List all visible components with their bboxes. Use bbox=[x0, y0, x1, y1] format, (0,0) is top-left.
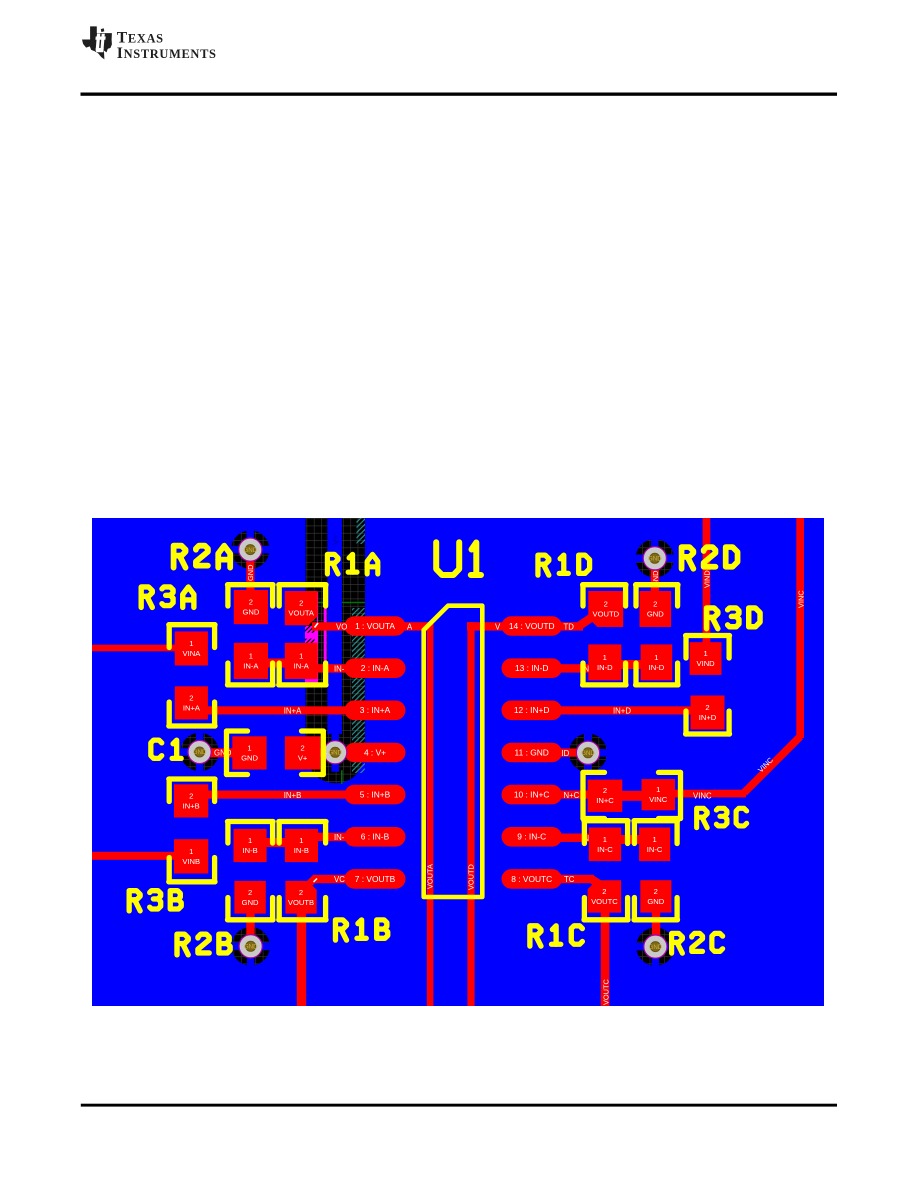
svg-text:GND: GND bbox=[193, 749, 207, 756]
pad R3B-1 VINB bbox=[174, 839, 208, 873]
svg-text:IN+A: IN+A bbox=[284, 706, 302, 715]
pad R2A-1 IN-A bbox=[234, 643, 268, 679]
svg-text:2: 2 bbox=[299, 599, 303, 608]
pad R1D-2 VOUTD bbox=[588, 591, 623, 627]
via V1 (GND via at R2A) bbox=[239, 538, 262, 561]
svg-text:1: 1 bbox=[656, 785, 660, 794]
svg-text:2: 2 bbox=[604, 600, 608, 609]
wire IN-A bridge bbox=[266, 659, 286, 668]
wire IN-C bridge bbox=[620, 835, 641, 844]
resistor R3B outline bbox=[169, 776, 215, 781]
svg-text:7 : VOUTB: 7 : VOUTB bbox=[355, 874, 396, 884]
V+ power trace (top layer, blue) bbox=[327, 518, 342, 754]
svg-text:VOUTA: VOUTA bbox=[288, 609, 315, 618]
wire VOUTC (R1C to bottom edge) bbox=[601, 912, 610, 1007]
via V2 (GND via at R2D) bbox=[643, 547, 666, 570]
pad R3D-2 IN+D bbox=[691, 696, 725, 730]
wire IN-B bridge bbox=[266, 838, 286, 847]
pad R3D-1 VIND bbox=[690, 642, 722, 675]
wire VOUTC (pin 8 to R1C) bbox=[560, 875, 594, 883]
designator R2A bbox=[174, 546, 231, 568]
svg-text:14 : VOUTD: 14 : VOUTD bbox=[509, 621, 555, 631]
pad R1A-2 VOUTA bbox=[285, 591, 318, 625]
svg-text:V+: V+ bbox=[331, 534, 341, 545]
designator R1C bbox=[530, 926, 582, 946]
via V6 (GND via at R2B) bbox=[239, 935, 262, 958]
svg-text:8 : VOUTC: 8 : VOUTC bbox=[511, 874, 552, 884]
svg-text:VO: VO bbox=[336, 622, 347, 631]
svg-text:11 : GND: 11 : GND bbox=[515, 747, 549, 757]
designator R1B bbox=[335, 920, 387, 940]
svg-text:IN-A: IN-A bbox=[243, 661, 259, 670]
designator C1 bbox=[151, 740, 181, 758]
svg-text:A: A bbox=[407, 622, 413, 631]
PCB board blue background bbox=[92, 518, 824, 1006]
pad R3A-2 IN+A bbox=[175, 686, 208, 719]
wire GND (pin 11 to via V5) bbox=[560, 749, 578, 757]
svg-text:2: 2 bbox=[705, 703, 709, 712]
designator R1D bbox=[538, 555, 590, 575]
svg-text:IN+D: IN+D bbox=[613, 706, 631, 715]
wire VINA (edge to R3A) bbox=[92, 645, 180, 652]
svg-text:2: 2 bbox=[602, 887, 606, 896]
wire IN-D bridge bbox=[621, 660, 642, 669]
designator R3C bbox=[697, 808, 747, 827]
resistor R3A outline bbox=[169, 622, 215, 627]
pad R1B-2 VOUTB bbox=[285, 881, 316, 914]
U1 pin 6 pad (6 : IN-B) bbox=[345, 827, 406, 847]
pad R3A-1 VINA bbox=[175, 631, 208, 665]
svg-text:IN-: IN- bbox=[334, 664, 345, 673]
svg-text:10 : IN+C: 10 : IN+C bbox=[514, 790, 550, 800]
svg-text:VOUTD: VOUTD bbox=[593, 610, 620, 619]
wire IN+A (pin 3 to R3A) bbox=[206, 706, 352, 714]
via V3 (GND via at C1) thermal pour bbox=[180, 733, 218, 771]
via V5 (GND via at pin 11) bbox=[576, 741, 599, 764]
U1 pin 14 pad (14 : VOUTD) bbox=[502, 616, 563, 636]
resistor R2B outline bbox=[228, 819, 274, 824]
svg-text:IN+A: IN+A bbox=[183, 703, 201, 712]
U1 pin 12 pad (12 : IN+D) bbox=[502, 701, 563, 721]
pad R2A-2 GND bbox=[234, 590, 268, 624]
TI logo bug (Texas outline with ti) bbox=[82, 26, 112, 59]
svg-text:INSTRUMENTS: INSTRUMENTS bbox=[117, 45, 217, 62]
svg-text:VINB: VINB bbox=[182, 857, 200, 866]
via V7 (GND via at R2C) thermal pour bbox=[636, 927, 674, 965]
wire VOUTA (U1 to bottom edge) bbox=[427, 622, 434, 1006]
svg-text:VINC: VINC bbox=[796, 590, 805, 608]
svg-text:2: 2 bbox=[248, 888, 252, 897]
pad C1-2 V+ bbox=[285, 736, 321, 769]
U1 pin 5 pad (5 : IN+B) bbox=[345, 785, 406, 805]
via V7 (GND via at R2C) bbox=[644, 935, 667, 958]
svg-text:TC: TC bbox=[564, 875, 575, 884]
svg-text:ID: ID bbox=[562, 749, 570, 758]
designator R2D bbox=[682, 547, 738, 569]
svg-text:GND: GND bbox=[647, 610, 664, 619]
svg-text:GND: GND bbox=[244, 944, 258, 951]
svg-text:N+C: N+C bbox=[564, 791, 580, 800]
via V1 (GND via at R2A) thermal pour bbox=[231, 530, 269, 568]
svg-text:2: 2 bbox=[300, 743, 304, 752]
designator R3D bbox=[707, 608, 761, 629]
resistor R3D outline bbox=[686, 633, 730, 638]
U1 pin 7 pad (7 : VOUTB) bbox=[345, 869, 406, 889]
wire VOUTB (pin 7 to R1B) bbox=[313, 875, 352, 883]
wire V+ (C1 to via V4) bbox=[318, 748, 336, 757]
svg-text:IN-D: IN-D bbox=[649, 663, 665, 672]
svg-text:V+: V+ bbox=[298, 753, 308, 762]
pad R1D-1 IN-D bbox=[588, 644, 621, 680]
wire IN-C (pin 9 to R2C) bbox=[560, 834, 592, 842]
svg-text:IN-B: IN-B bbox=[243, 846, 258, 855]
wire IN+C (pin 10 to R3C) bbox=[560, 791, 592, 799]
pad R2C-2 GND bbox=[640, 880, 671, 912]
svg-text:1: 1 bbox=[247, 743, 251, 752]
svg-text:IN-: IN- bbox=[334, 833, 345, 842]
resistor R2A outline bbox=[228, 582, 274, 587]
svg-text:1: 1 bbox=[603, 835, 607, 844]
wire VIND (top edge to R3D) bbox=[703, 518, 711, 646]
svg-text:VOUTA: VOUTA bbox=[426, 864, 435, 889]
svg-text:VOUTC: VOUTC bbox=[591, 897, 618, 906]
U1 pin 4 pad (4 : V+) bbox=[345, 743, 406, 763]
U1 pin 9 pad (9 : IN-C) bbox=[502, 827, 563, 847]
wire GND (via V1 to R2A) bbox=[246, 549, 254, 591]
inner layer trace (green vertical) bbox=[341, 747, 343, 784]
svg-text:TEXAS: TEXAS bbox=[117, 29, 164, 46]
wire GND (via V3 to C1) bbox=[200, 748, 234, 757]
wire VINC (top edge, right side route) bbox=[796, 518, 804, 738]
svg-text:1: 1 bbox=[189, 639, 193, 648]
svg-text:GND: GND bbox=[242, 608, 259, 617]
svg-text:2: 2 bbox=[603, 786, 607, 795]
wire IN-D (pin 13 to R1D) bbox=[560, 664, 592, 672]
trace tick at R1A VOUTA pad bbox=[315, 623, 319, 628]
capacitor C1 outline bbox=[227, 728, 248, 733]
svg-text:IN-A: IN-A bbox=[294, 661, 310, 670]
via V4 (V+ via at pin 4) bbox=[324, 741, 347, 764]
svg-text:3 : IN+A: 3 : IN+A bbox=[360, 705, 391, 715]
wire GND (R2B to via V6) bbox=[246, 913, 254, 947]
wire VOUTA (pin 1 to R1A) bbox=[312, 622, 433, 630]
wire IN-A (pin 2 to R1A) bbox=[316, 664, 352, 672]
wire IN-B (pin 6 to R1B) bbox=[316, 833, 352, 841]
svg-text:GND: GND bbox=[581, 750, 595, 757]
pad R2B-2 GND bbox=[234, 881, 265, 914]
svg-text:VOUTD: VOUTD bbox=[467, 864, 476, 890]
pad R1C-2 VOUTC bbox=[588, 880, 622, 912]
svg-text:2: 2 bbox=[189, 693, 193, 702]
svg-text:2: 2 bbox=[653, 600, 657, 609]
svg-text:1: 1 bbox=[299, 651, 303, 660]
U1 pin 2 pad (2 : IN-A) bbox=[345, 658, 406, 678]
wire VINB (edge to R3B) bbox=[92, 852, 180, 860]
via V4 (V+ via at pin 4) thermal pour bbox=[316, 733, 354, 771]
via V5 (GND via at pin 11) thermal pour bbox=[569, 734, 607, 772]
svg-text:VOUTB: VOUTB bbox=[288, 898, 314, 907]
svg-text:5 : IN+B: 5 : IN+B bbox=[360, 790, 391, 800]
svg-text:VC: VC bbox=[334, 875, 345, 884]
via V2 (GND via at R2D) thermal pour bbox=[636, 539, 674, 577]
svg-text:2: 2 bbox=[654, 887, 658, 896]
svg-text:VINC: VINC bbox=[649, 795, 668, 804]
wire V+ (pin 4 to via V4) bbox=[333, 748, 352, 756]
resistor R1C outline bbox=[584, 818, 628, 823]
inner layer trace (green horizontal) bbox=[306, 602, 365, 604]
designator U1 bbox=[436, 542, 481, 575]
svg-text:1: 1 bbox=[249, 651, 253, 660]
U1 pin 10 pad (10 : IN+C) bbox=[502, 785, 563, 805]
bottom rule bbox=[81, 1104, 837, 1107]
svg-text:TD: TD bbox=[564, 622, 575, 631]
svg-text:1: 1 bbox=[703, 649, 707, 658]
svg-text:IN-D: IN-D bbox=[597, 663, 613, 672]
designator R2C bbox=[672, 933, 723, 953]
pad R2B-1 IN-B bbox=[234, 829, 267, 862]
svg-text:2: 2 bbox=[189, 791, 193, 800]
svg-text:6 : IN-B: 6 : IN-B bbox=[361, 832, 390, 842]
designator R3B bbox=[129, 891, 181, 911]
designator R1A bbox=[327, 554, 377, 574]
svg-text:IN-B: IN-B bbox=[294, 846, 309, 855]
pad R2C-1 IN-C bbox=[639, 828, 670, 862]
top rule bbox=[81, 93, 838, 96]
svg-text:4 : V+: 4 : V+ bbox=[364, 747, 386, 757]
U1 pin 3 pad (3 : IN+A) bbox=[345, 701, 406, 721]
svg-text:IN-C: IN-C bbox=[597, 845, 613, 854]
svg-text:2: 2 bbox=[249, 598, 253, 607]
pad R1C-1 IN-C bbox=[589, 828, 621, 862]
svg-text:IN+D: IN+D bbox=[699, 713, 717, 722]
svg-text:VINA: VINA bbox=[183, 649, 202, 658]
wire VOUTD (pin 14 to R1D) bbox=[467, 622, 583, 630]
inner layer trace (magenta) at R1A bbox=[305, 626, 317, 644]
pad R2D-2 GND bbox=[640, 591, 672, 627]
wire IN+D (pin 12 to R3D) bbox=[560, 706, 694, 714]
svg-text:2 : IN-A: 2 : IN-A bbox=[361, 663, 390, 673]
svg-text:1 : VOUTA: 1 : VOUTA bbox=[355, 621, 395, 631]
resistor R2C outline bbox=[634, 818, 678, 823]
pad R1B-1 IN-B bbox=[285, 829, 318, 862]
svg-text:1: 1 bbox=[189, 847, 193, 856]
U1 pin 11 pad (11 : GND) bbox=[502, 743, 563, 763]
U1 pin 8 pad (8 : VOUTC) bbox=[502, 869, 563, 889]
resistor R1A outline bbox=[279, 582, 326, 587]
svg-text:IN-C: IN-C bbox=[647, 845, 663, 854]
resistor R1B outline bbox=[279, 819, 326, 824]
svg-text:GND: GND bbox=[243, 547, 257, 554]
svg-text:VOUTC: VOUTC bbox=[601, 978, 610, 1005]
svg-text:GND: GND bbox=[328, 750, 342, 757]
resistor R1D outline bbox=[583, 582, 626, 587]
wire GND (via V2 to R2D) bbox=[651, 558, 659, 592]
designator R2B bbox=[177, 934, 230, 955]
ground plane pour (black hatched band) bbox=[306, 518, 365, 783]
wire GND (R2C to via V7) bbox=[652, 913, 660, 948]
wire VOUTD (U1 to bottom edge) bbox=[467, 622, 474, 1006]
pad R3B-2 IN+B bbox=[174, 784, 208, 817]
via V3 (GND via at C1) bbox=[188, 740, 211, 763]
U1 pin 13 pad (13 : IN-D) bbox=[502, 658, 563, 678]
svg-text:12 : IN+D: 12 : IN+D bbox=[514, 705, 550, 715]
wire VOUTB (R1B to bottom edge) bbox=[297, 913, 306, 1007]
svg-text:VIND: VIND bbox=[702, 570, 711, 588]
pad R2D-1 IN-D bbox=[641, 644, 673, 680]
svg-text:GND: GND bbox=[242, 898, 259, 907]
svg-text:1: 1 bbox=[652, 835, 656, 844]
svg-text:IN+C: IN+C bbox=[596, 796, 614, 805]
hatched copper strip bbox=[352, 608, 365, 773]
svg-text:1: 1 bbox=[299, 836, 303, 845]
wire IN+C/VINC bridge bbox=[620, 791, 643, 801]
svg-text:IN+B: IN+B bbox=[284, 791, 302, 800]
svg-text:GND: GND bbox=[648, 556, 662, 563]
pad C1-1 GND bbox=[232, 736, 266, 769]
via V6 (GND via at R2B) thermal pour bbox=[232, 927, 270, 965]
svg-text:VINC: VINC bbox=[693, 791, 712, 800]
svg-text:V: V bbox=[495, 622, 501, 631]
svg-text:1: 1 bbox=[603, 653, 607, 662]
U1 pin 1 pad (1 : VOUTA) bbox=[345, 616, 406, 636]
resistor R2D outline bbox=[636, 582, 678, 587]
designator R3A bbox=[141, 587, 194, 607]
svg-text:1: 1 bbox=[654, 653, 658, 662]
svg-text:2: 2 bbox=[299, 888, 303, 897]
svg-text:GND: GND bbox=[647, 897, 664, 906]
op-amp U1 outline bbox=[424, 606, 483, 897]
svg-text:GND: GND bbox=[649, 944, 663, 951]
svg-text:13 : IN-D: 13 : IN-D bbox=[515, 663, 549, 673]
pad R1A-1 IN-A bbox=[285, 643, 318, 679]
wire IN+B (pin 5 to R3B) bbox=[206, 791, 352, 799]
svg-text:9 : IN-C: 9 : IN-C bbox=[517, 832, 546, 842]
svg-text:GND: GND bbox=[246, 565, 255, 581]
resistor R3C outline bbox=[583, 770, 605, 775]
svg-text:GND: GND bbox=[241, 753, 258, 762]
svg-text:1: 1 bbox=[248, 836, 252, 845]
svg-text:IN+B: IN+B bbox=[183, 801, 200, 810]
svg-text:VIND: VIND bbox=[697, 659, 716, 668]
pad R3C-2 IN+C bbox=[588, 780, 623, 812]
pad R3C-1 VINC bbox=[642, 779, 676, 810]
